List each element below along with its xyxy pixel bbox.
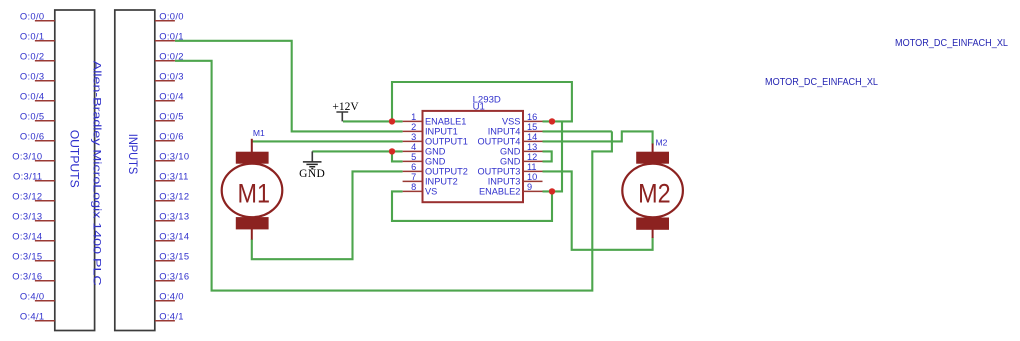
U1 pin 1 ENABLE1 — [403, 112, 467, 127]
OUTPUTS pin O:0/1 — [20, 31, 55, 42]
U1 pin 12 GND — [500, 152, 543, 167]
OUTPUTS pin O:0/3 — [20, 71, 55, 82]
OUTPUTS pin O:0/2 — [20, 51, 55, 62]
INPUTS pin O:0/5 — [155, 111, 184, 122]
svg-text:INPUT3: INPUT3 — [488, 177, 521, 187]
wire O:0/1 to U1 INPUT1 — [175, 41, 403, 132]
svg-text:OUTPUT1: OUTPUT1 — [425, 137, 468, 147]
svg-text:O:3/16: O:3/16 — [159, 271, 189, 282]
svg-text:INPUT1: INPUT1 — [425, 127, 458, 137]
svg-text:O:3/10: O:3/10 — [159, 151, 189, 162]
svg-text:O:3/11: O:3/11 — [159, 171, 189, 182]
svg-text:VS: VS — [425, 187, 437, 197]
svg-text:O:3/11: O:3/11 — [13, 171, 43, 182]
INPUTS pin O:3/10 — [155, 151, 190, 162]
svg-text:O:0/5: O:0/5 — [159, 111, 184, 122]
U1 pin 2 INPUT1 — [403, 122, 458, 137]
svg-text:INPUT4: INPUT4 — [488, 127, 521, 137]
svg-text:13: 13 — [527, 142, 537, 152]
INPUTS pin O:0/1 — [155, 31, 184, 42]
wire U1 OUTPUT1 to M1 top — [252, 140, 403, 142]
INPUTS pin O:0/2 — [155, 51, 184, 62]
svg-text:GND: GND — [425, 157, 446, 167]
OUTPUTS pin O:3/15 — [12, 251, 55, 262]
svg-text:1: 1 — [411, 112, 416, 122]
INPUTS pin O:3/13 — [155, 211, 190, 222]
junction dot (392,151.4) — [389, 148, 395, 154]
IC U1 L293D body — [423, 95, 524, 203]
svg-text:O:0/6: O:0/6 — [159, 131, 184, 142]
wire U1 INPUT4 stub run — [543, 130, 612, 132]
svg-text:3: 3 — [411, 132, 416, 142]
wire GND pins 4-5 jumper — [392, 151, 403, 161]
OUTPUTS pin O:3/10 — [12, 151, 55, 162]
svg-text:O:4/0: O:4/0 — [159, 291, 184, 302]
svg-text:O:0/6: O:0/6 — [20, 131, 45, 142]
svg-text:7: 7 — [411, 172, 416, 182]
svg-text:MOTOR_DC_EINFACH_XL: MOTOR_DC_EINFACH_XL — [895, 38, 1008, 49]
OUTPUTS pin O:0/5 — [20, 111, 55, 122]
svg-text:O:0/3: O:0/3 — [159, 71, 184, 82]
U1 pin 11 OUTPUT3 — [478, 162, 543, 177]
INPUTS pin O:3/15 — [155, 251, 190, 262]
svg-text:O:0/1: O:0/1 — [20, 31, 45, 42]
svg-text:INPUTS: INPUTS — [126, 134, 139, 175]
svg-text:ENABLE2: ENABLE2 — [479, 187, 520, 197]
svg-text:O:3/12: O:3/12 — [12, 191, 42, 202]
INPUTS pin O:3/14 — [155, 231, 190, 242]
svg-text:GND: GND — [299, 168, 325, 180]
wire VSS to ENABLE2 tie — [543, 121, 563, 191]
GND ground symbol — [299, 151, 325, 179]
INPUTS pin O:0/6 — [155, 131, 184, 142]
U1 pin 10 INPUT3 — [488, 172, 543, 187]
junction dot (552,191.4) — [549, 188, 555, 194]
svg-text:O:0/0: O:0/0 — [159, 11, 184, 22]
svg-text:O:4/0: O:4/0 — [20, 291, 45, 302]
INPUTS pin O:0/4 — [155, 91, 184, 102]
OUTPUTS pin O:3/16 — [12, 271, 55, 282]
svg-text:O:0/4: O:0/4 — [159, 91, 184, 102]
U1 pin 16 VSS — [502, 112, 542, 127]
svg-text:Allen-Bradley MicroLogix 1400: Allen-Bradley MicroLogix 1400 PLC — [91, 61, 103, 286]
INPUTS pin O:0/0 — [155, 11, 184, 22]
svg-text:GND: GND — [500, 157, 521, 167]
INPUTS pin O:3/11 — [155, 171, 189, 182]
wire VS loop under chip to ENABLE2 junction — [392, 191, 552, 221]
svg-text:M2: M2 — [638, 179, 671, 209]
wire U1 OUTPUT4 to M2 top — [543, 131, 653, 144]
svg-text:4: 4 — [411, 142, 416, 152]
U1 pin 13 GND — [500, 142, 543, 157]
U1 pin 14 OUTPUT4 — [478, 132, 543, 147]
wire U1 GND pins 13-12 bracket — [543, 151, 552, 161]
OUTPUTS pin O:3/13 — [12, 211, 55, 222]
svg-text:M2: M2 — [656, 138, 668, 148]
PLC module INPUTS box — [115, 10, 155, 331]
motor M2 — [622, 138, 683, 238]
svg-text:O:0/2: O:0/2 — [20, 51, 45, 62]
OUTPUTS pin O:3/12 — [12, 191, 55, 202]
svg-text:2: 2 — [411, 122, 416, 132]
U1 pin 5 GND — [403, 152, 446, 167]
U1 pin 8 VS — [403, 182, 438, 197]
svg-text:O:3/14: O:3/14 — [12, 231, 42, 242]
svg-text:O:3/14: O:3/14 — [159, 231, 189, 242]
svg-text:6: 6 — [411, 162, 416, 172]
svg-text:16: 16 — [527, 112, 537, 122]
U1 pin 15 INPUT4 — [488, 122, 543, 137]
wire +12V rail over chip to VSS — [392, 82, 572, 121]
U1 pin 9 ENABLE2 — [479, 182, 542, 197]
svg-text:O:3/12: O:3/12 — [159, 191, 189, 202]
svg-text:GND: GND — [500, 147, 521, 157]
svg-text:O:0/5: O:0/5 — [20, 111, 45, 122]
svg-text:M1: M1 — [238, 179, 271, 209]
svg-text:INPUT2: INPUT2 — [425, 177, 458, 187]
U1 pin 7 INPUT2 — [403, 172, 458, 187]
svg-text:14: 14 — [527, 132, 537, 142]
svg-text:O:3/15: O:3/15 — [12, 251, 42, 262]
svg-text:U1: U1 — [473, 101, 485, 112]
U1 pin 6 OUTPUT2 — [403, 162, 468, 177]
svg-text:12: 12 — [527, 152, 537, 162]
svg-text:O:3/13: O:3/13 — [12, 211, 42, 222]
OUTPUTS pin O:0/4 — [20, 91, 55, 102]
svg-text:OUTPUT2: OUTPUT2 — [425, 167, 468, 177]
INPUTS pin O:4/0 — [155, 291, 184, 302]
svg-text:O:4/1: O:4/1 — [159, 311, 184, 322]
svg-text:VSS: VSS — [502, 117, 520, 127]
OUTPUTS pin O:0/0 — [20, 11, 55, 22]
wire O:0/2 to U1 INPUT4 (bottom route) — [175, 61, 612, 291]
svg-text:MOTOR_DC_EINFACH_XL: MOTOR_DC_EINFACH_XL — [765, 77, 878, 88]
wire +12V to U1 ENABLE1 — [343, 120, 403, 122]
PLC module OUTPUTS box — [55, 10, 95, 331]
+12V power symbol — [332, 101, 359, 121]
OUTPUTS pin O:0/6 — [20, 131, 55, 142]
svg-text:O:0/3: O:0/3 — [20, 71, 45, 82]
U1 pin 3 OUTPUT1 — [403, 132, 468, 147]
svg-text:OUTPUT3: OUTPUT3 — [478, 167, 521, 177]
svg-text:O:3/15: O:3/15 — [159, 251, 189, 262]
svg-text:8: 8 — [411, 182, 416, 192]
wire U1 OUTPUT3 to M2 bottom — [543, 171, 653, 249]
wire U1 OUTPUT2 to M1 bottom — [252, 171, 403, 259]
U1 pin 4 GND — [403, 142, 446, 157]
INPUTS pin O:4/1 — [155, 311, 184, 322]
svg-text:OUTPUTS: OUTPUTS — [68, 130, 81, 188]
svg-text:M1: M1 — [253, 128, 265, 138]
svg-text:O:3/16: O:3/16 — [12, 271, 42, 282]
svg-text:9: 9 — [527, 182, 532, 192]
OUTPUTS pin O:3/14 — [12, 231, 55, 242]
svg-text:15: 15 — [527, 122, 537, 132]
motor M1 — [222, 128, 283, 239]
junction dot (552,121.4) — [549, 118, 555, 124]
svg-text:O:3/13: O:3/13 — [159, 211, 189, 222]
svg-text:11: 11 — [527, 162, 537, 172]
OUTPUTS pin O:4/1 — [20, 311, 55, 322]
svg-text:5: 5 — [411, 152, 416, 162]
OUTPUTS pin O:3/11 — [13, 171, 55, 182]
svg-text:ENABLE1: ENABLE1 — [425, 117, 466, 127]
svg-text:O:0/4: O:0/4 — [20, 91, 45, 102]
svg-text:10: 10 — [527, 172, 537, 182]
wire GND symbol to U1 GND pin4 — [312, 150, 402, 152]
svg-text:OUTPUT4: OUTPUT4 — [478, 137, 521, 147]
junction dot (392,121.4) — [389, 118, 395, 124]
INPUTS pin O:3/16 — [155, 271, 190, 282]
svg-text:GND: GND — [425, 147, 446, 157]
svg-text:O:4/1: O:4/1 — [20, 311, 45, 322]
svg-text:O:3/10: O:3/10 — [12, 151, 42, 162]
INPUTS pin O:3/12 — [155, 191, 190, 202]
svg-text:O:0/0: O:0/0 — [20, 11, 45, 22]
INPUTS pin O:0/3 — [155, 71, 184, 82]
OUTPUTS pin O:4/0 — [20, 291, 55, 302]
